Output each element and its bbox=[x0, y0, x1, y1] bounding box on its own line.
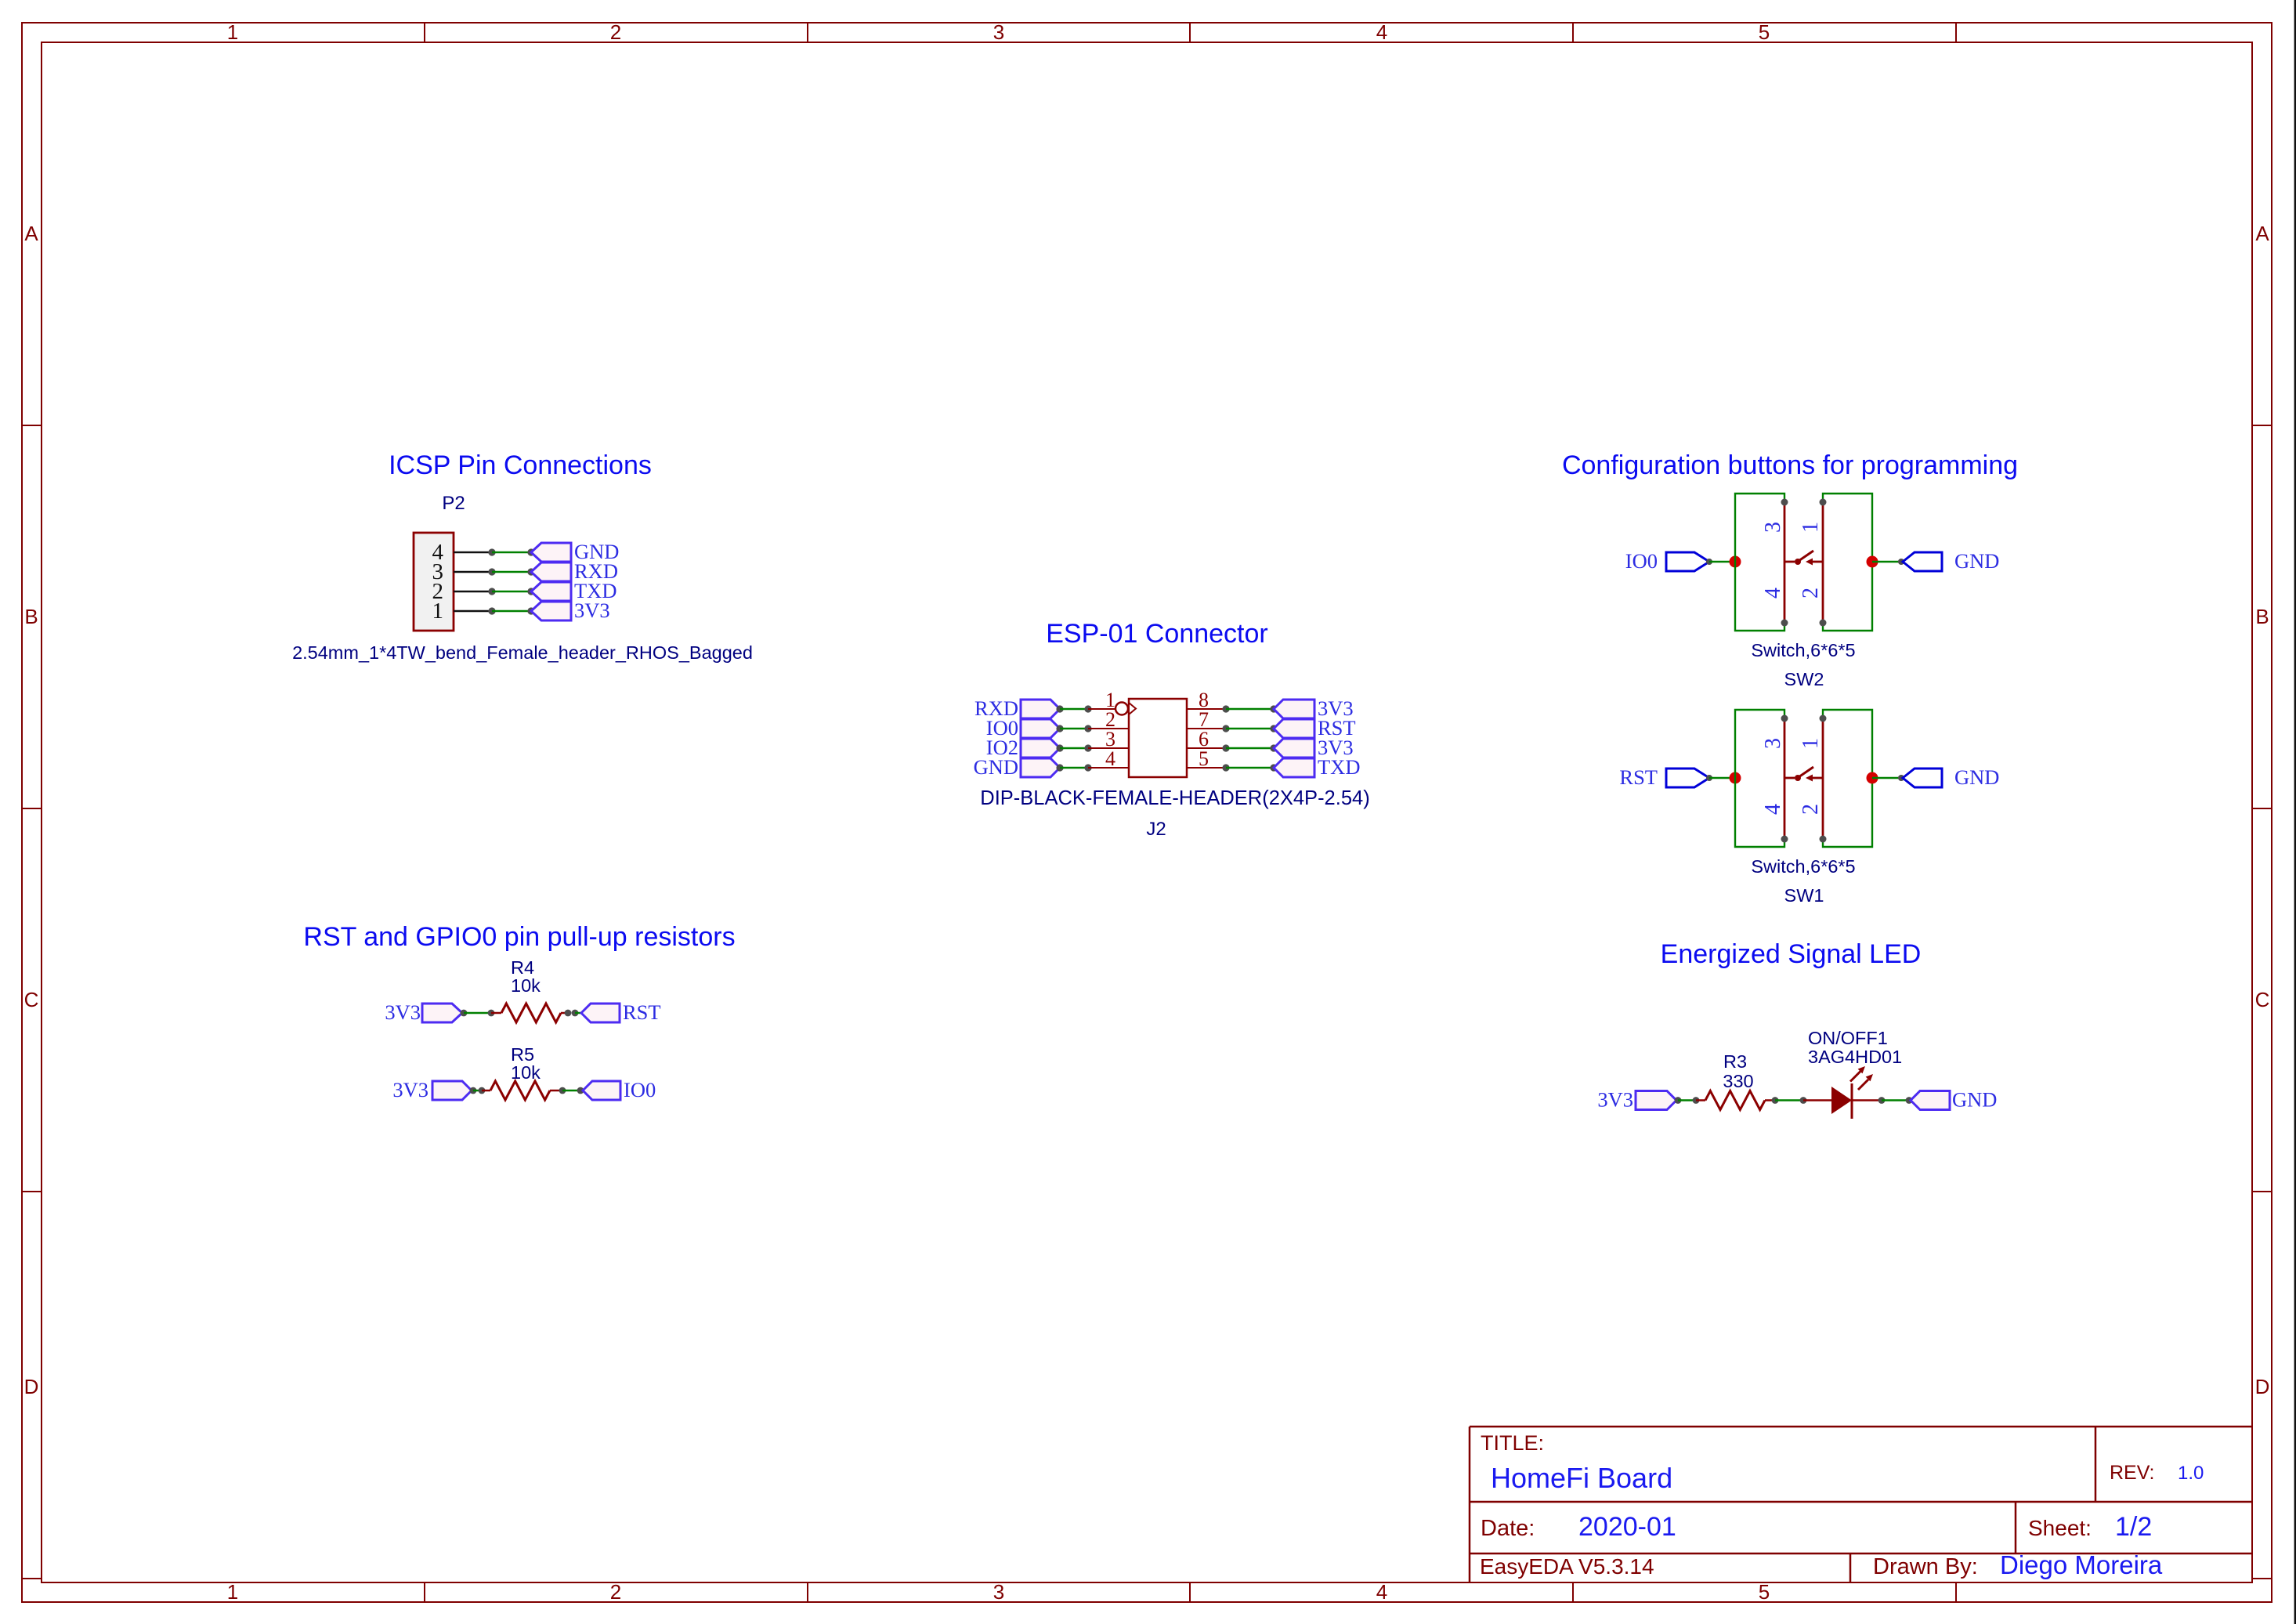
wire 3V3 flag to R3 bbox=[1675, 1097, 1705, 1104]
svg-text:GND: GND bbox=[1952, 1088, 1997, 1112]
svg-text:4: 4 bbox=[1761, 804, 1785, 815]
svg-text:P2: P2 bbox=[442, 493, 465, 514]
resistor R4 value label 10k bbox=[511, 975, 541, 996]
SW1 pin numbers 3 4 1 2 bbox=[1761, 738, 1823, 815]
wire SW2 right loop to pins 1 and 2 bbox=[1823, 494, 1872, 631]
J2 footprint caption bbox=[980, 787, 1369, 809]
svg-text:Date:: Date: bbox=[1481, 1516, 1535, 1541]
svg-text:2: 2 bbox=[610, 1580, 621, 1604]
svg-text:4: 4 bbox=[1761, 588, 1785, 599]
svg-text:2020-01: 2020-01 bbox=[1578, 1512, 1676, 1542]
svg-text:1/2: 1/2 bbox=[2115, 1512, 2152, 1542]
wire P2 pin 2 to TXD flag bbox=[454, 588, 535, 595]
LED ON/OFF1 refdes label bbox=[1808, 1028, 1888, 1048]
note: Configuration buttons for programming section title bbox=[1562, 450, 2018, 480]
svg-text:D: D bbox=[24, 1375, 39, 1398]
wire R5 to IO0 flag bbox=[550, 1087, 584, 1094]
net flag 3V3 (P2 pin 1) bbox=[531, 599, 610, 622]
wire J2 pin 8 to 3V3 flag bbox=[1187, 705, 1278, 712]
resistor R5 value label 10k bbox=[511, 1062, 541, 1083]
svg-text:5: 5 bbox=[1759, 1580, 1770, 1604]
svg-text:1: 1 bbox=[432, 599, 444, 624]
wire SW1 left loop to pins 3 and 4 bbox=[1735, 710, 1784, 847]
svg-text:ON/OFF1: ON/OFF1 bbox=[1808, 1028, 1888, 1048]
svg-text:A: A bbox=[2255, 222, 2269, 245]
svg-text:5: 5 bbox=[1199, 747, 1209, 770]
net flag IO0 (J2 pin 2) bbox=[986, 716, 1060, 740]
svg-text:1: 1 bbox=[227, 1580, 238, 1604]
svg-text:B: B bbox=[24, 605, 38, 628]
net flag 3V3 (R5 left) bbox=[392, 1078, 472, 1101]
svg-text:B: B bbox=[2255, 605, 2269, 628]
svg-text:ICSP Pin Connections: ICSP Pin Connections bbox=[389, 450, 652, 480]
wire P2 pin 4 to GND flag bbox=[454, 548, 535, 555]
resistor R5 body bbox=[490, 1081, 550, 1100]
wire IO0 flag to J2 pin 2 bbox=[1056, 725, 1129, 732]
wire LED cathode to GND flag bbox=[1852, 1097, 1912, 1104]
svg-text:Drawn By:: Drawn By: bbox=[1873, 1554, 1978, 1579]
svg-text:TXD: TXD bbox=[1318, 755, 1360, 779]
svg-text:GND: GND bbox=[974, 755, 1018, 779]
net flag 3V3 (LED circuit) bbox=[1597, 1088, 1676, 1112]
svg-text:3: 3 bbox=[1761, 522, 1785, 533]
net flag GND (SW2 output) bbox=[1903, 549, 1999, 573]
svg-text:5: 5 bbox=[1759, 20, 1770, 44]
wire RST flag to SW1 bbox=[1706, 775, 1735, 781]
svg-text:Configuration buttons for prog: Configuration buttons for programming bbox=[1562, 450, 2018, 480]
svg-text:Energized Signal LED: Energized Signal LED bbox=[1661, 939, 1922, 969]
svg-text:Diego Moreira: Diego Moreira bbox=[2000, 1550, 2163, 1579]
resistor R4 refdes label bbox=[511, 957, 534, 978]
J2 right pin numbers 8 7 6 5 bbox=[1199, 689, 1209, 770]
svg-text:1.0: 1.0 bbox=[2178, 1463, 2204, 1484]
junction at SW1 left node bbox=[1730, 772, 1741, 784]
svg-text:10k: 10k bbox=[511, 975, 541, 996]
wire P2 pin 3 to RXD flag bbox=[454, 568, 535, 575]
wire IO0 flag to SW2 bbox=[1706, 559, 1735, 565]
svg-text:GND: GND bbox=[1954, 549, 1999, 573]
svg-text:Sheet:: Sheet: bbox=[2028, 1516, 2092, 1540]
svg-text:J2: J2 bbox=[1146, 819, 1166, 840]
wire IO2 flag to J2 pin 3 bbox=[1056, 744, 1129, 751]
resistor R3 value label 330 bbox=[1723, 1071, 1753, 1091]
wire SW2 to GND flag bbox=[1872, 559, 1904, 565]
switch SW1 refdes label bbox=[1784, 885, 1824, 906]
svg-text:RST: RST bbox=[1619, 765, 1658, 789]
P2 pin numbers 4 3 2 1 bbox=[432, 540, 444, 624]
wire GND flag to J2 pin 4 bbox=[1056, 764, 1129, 771]
svg-text:3V3: 3V3 bbox=[1597, 1088, 1633, 1112]
note: RST and GPIO0 pin pull-up resistors section title bbox=[303, 922, 735, 952]
wire R4 to RST flag bbox=[561, 1010, 581, 1017]
net flag IO0 (R5 right) bbox=[583, 1078, 656, 1101]
wire RXD flag to J2 pin 1 bbox=[1056, 705, 1115, 712]
net flag RXD (J2 pin 1) bbox=[974, 696, 1060, 720]
switch SW2 value label Switch,6*6*5 bbox=[1751, 640, 1855, 660]
svg-text:2: 2 bbox=[610, 20, 621, 44]
svg-text:4: 4 bbox=[1105, 747, 1115, 770]
svg-text:TITLE:: TITLE: bbox=[1481, 1431, 1544, 1455]
LED ON/OFF1 body bbox=[1831, 1066, 1873, 1119]
net flag GND (LED circuit) bbox=[1911, 1088, 1997, 1112]
svg-text:IO0: IO0 bbox=[1625, 549, 1658, 573]
svg-text:REV:: REV: bbox=[2110, 1462, 2154, 1484]
J2 left pin numbers 1 2 3 4 bbox=[1105, 689, 1115, 770]
SW2 pin numbers 3 4 1 2 bbox=[1761, 522, 1823, 599]
svg-text:R3: R3 bbox=[1723, 1051, 1747, 1072]
resistor R3 body bbox=[1705, 1091, 1765, 1110]
switch SW1 value label Switch,6*6*5 bbox=[1751, 856, 1855, 877]
junction at SW1 right node bbox=[1867, 772, 1878, 784]
wire 3V3 flag to R4 bbox=[461, 1010, 501, 1017]
net flag GND (P2 pin 4) bbox=[531, 540, 619, 563]
wire J2 pin 7 to RST flag bbox=[1187, 725, 1278, 732]
svg-text:GND: GND bbox=[1954, 765, 1999, 789]
svg-text:1: 1 bbox=[1799, 522, 1823, 533]
net flag RST (SW1 input) bbox=[1619, 765, 1709, 789]
svg-text:4: 4 bbox=[1376, 20, 1387, 44]
resistor R5 refdes label bbox=[511, 1044, 534, 1065]
connector J2 refdes label bbox=[1146, 819, 1166, 840]
svg-text:Switch,6*6*5: Switch,6*6*5 bbox=[1751, 640, 1855, 660]
svg-text:RST and GPIO0 pin pull-up resi: RST and GPIO0 pin pull-up resistors bbox=[303, 922, 735, 952]
connector P2 body bbox=[414, 533, 454, 631]
svg-text:3: 3 bbox=[993, 1580, 1004, 1604]
junction at SW2 left node bbox=[1730, 556, 1741, 568]
net flag TXD (J2 pin 5) bbox=[1274, 755, 1360, 779]
junction at SW2 right node bbox=[1867, 556, 1878, 568]
wire J2 pin 6 to 3V3 flag bbox=[1187, 744, 1278, 751]
svg-text:3: 3 bbox=[993, 20, 1004, 44]
title block bbox=[1470, 1427, 2252, 1582]
svg-text:3: 3 bbox=[1761, 738, 1785, 749]
svg-text:4: 4 bbox=[1376, 1580, 1387, 1604]
svg-text:Switch,6*6*5: Switch,6*6*5 bbox=[1751, 856, 1855, 877]
svg-text:1: 1 bbox=[227, 20, 238, 44]
connector J2 body bbox=[1129, 699, 1187, 777]
note: Energized Signal LED section title bbox=[1661, 939, 1922, 969]
switch SW1 body bbox=[1781, 715, 1827, 843]
P2 footprint caption bbox=[292, 642, 753, 663]
svg-text:1: 1 bbox=[1799, 738, 1823, 749]
svg-text:3V3: 3V3 bbox=[392, 1078, 428, 1101]
net flag TXD (P2 pin 2) bbox=[531, 579, 616, 602]
svg-text:D: D bbox=[2255, 1375, 2270, 1398]
svg-text:A: A bbox=[24, 222, 38, 245]
svg-text:C: C bbox=[2255, 988, 2270, 1011]
wire P2 pin 1 to 3V3 flag bbox=[454, 607, 535, 614]
svg-text:C: C bbox=[24, 988, 39, 1011]
note: ICSP Pin Connections section title bbox=[389, 450, 652, 480]
J2 pin 1 inversion bubble and clock mark bbox=[1115, 703, 1136, 715]
svg-text:DIP-BLACK-FEMALE-HEADER(2X4P-2: DIP-BLACK-FEMALE-HEADER(2X4P-2.54) bbox=[980, 787, 1369, 809]
svg-text:IO0: IO0 bbox=[624, 1078, 656, 1101]
resistor R3 refdes label bbox=[1723, 1051, 1747, 1072]
net flag IO0 (SW2 input) bbox=[1625, 549, 1709, 573]
net flag GND (SW1 output) bbox=[1903, 765, 1999, 789]
wire J2 pin 5 to TXD flag bbox=[1187, 764, 1278, 771]
net flag IO2 (J2 pin 3) bbox=[986, 736, 1060, 759]
net flag GND (J2 pin 4) bbox=[974, 755, 1060, 779]
svg-text:3AG4HD01: 3AG4HD01 bbox=[1808, 1047, 1902, 1067]
svg-text:SW2: SW2 bbox=[1784, 669, 1824, 689]
svg-text:2: 2 bbox=[1799, 588, 1823, 599]
svg-text:SW1: SW1 bbox=[1784, 885, 1824, 906]
switch SW2 refdes label bbox=[1784, 669, 1824, 689]
wire SW2 left loop to pins 3 and 4 bbox=[1735, 494, 1784, 631]
net flag 3V3 (J2 pin 6) bbox=[1274, 736, 1354, 759]
svg-text:3V3: 3V3 bbox=[574, 599, 610, 622]
wire SW1 right loop to pins 1 and 2 bbox=[1823, 710, 1872, 847]
net flag RXD (P2 pin 3) bbox=[531, 559, 618, 583]
net flag 3V3 (R4 left) bbox=[385, 1000, 462, 1024]
wire SW1 to GND flag bbox=[1872, 775, 1904, 781]
svg-text:2.54mm_1*4TW_bend_Female_heade: 2.54mm_1*4TW_bend_Female_header_RHOS_Bag… bbox=[292, 642, 753, 663]
wire 3V3 flag to R5 bbox=[470, 1087, 490, 1094]
svg-text:EasyEDA V5.3.14: EasyEDA V5.3.14 bbox=[1480, 1554, 1654, 1579]
net flag RST (J2 pin 7) bbox=[1274, 716, 1356, 740]
resistor R4 body bbox=[501, 1004, 561, 1022]
svg-text:HomeFi Board: HomeFi Board bbox=[1491, 1462, 1672, 1494]
svg-text:RST: RST bbox=[623, 1000, 661, 1024]
svg-text:330: 330 bbox=[1723, 1071, 1753, 1091]
net flag RST (R4 right) bbox=[581, 1000, 661, 1024]
note: ESP-01 Connector section title bbox=[1046, 619, 1268, 649]
svg-text:ESP-01 Connector: ESP-01 Connector bbox=[1046, 619, 1268, 649]
net flag 3V3 (J2 pin 8) bbox=[1274, 696, 1354, 720]
svg-text:3V3: 3V3 bbox=[385, 1000, 421, 1024]
connector P2 refdes label bbox=[442, 493, 465, 514]
svg-text:2: 2 bbox=[1799, 804, 1823, 815]
LED ON/OFF1 value label 3AG4HD01 bbox=[1808, 1047, 1902, 1067]
wire R3 to LED anode bbox=[1765, 1097, 1831, 1104]
switch SW2 body bbox=[1781, 499, 1827, 627]
